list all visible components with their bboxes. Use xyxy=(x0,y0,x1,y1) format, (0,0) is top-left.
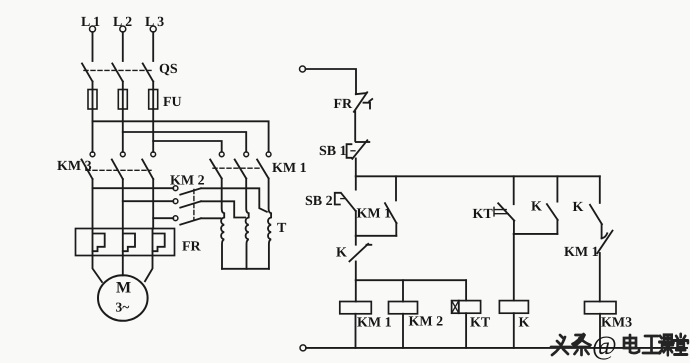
contact KM1 (NC interlock, right branch) xyxy=(597,231,612,302)
svg-text:3~: 3~ xyxy=(116,300,130,315)
pushbutton SB2 (NO start) xyxy=(335,176,356,211)
contactor KM1 main contact 1 xyxy=(210,152,224,179)
svg-text:L 1: L 1 xyxy=(81,15,100,30)
wire tap2 KM2 to winding 2 xyxy=(201,201,245,217)
char 电 xyxy=(624,335,639,353)
autotransformer T winding 2 xyxy=(246,179,249,269)
svg-text:L 2: L 2 xyxy=(113,15,132,30)
wire L1 to QS xyxy=(92,32,94,61)
svg-text:KM 1: KM 1 xyxy=(357,316,392,331)
wire drop to KM2 coil xyxy=(402,280,404,301)
star point bus xyxy=(222,268,269,270)
svg-text:SB 1: SB 1 xyxy=(319,144,347,159)
control bottom bus xyxy=(306,347,687,349)
control upper rail xyxy=(356,175,600,177)
svg-text:FR: FR xyxy=(334,97,354,112)
coil KM2 xyxy=(389,302,418,348)
wire FR to motor right xyxy=(145,251,153,281)
KM3 mechanical link (dashed) xyxy=(86,169,151,171)
contact K (right branch NO) xyxy=(590,176,602,238)
svg-text:T: T xyxy=(277,221,287,236)
contactor KM3 main contact 3 xyxy=(142,152,155,179)
wire SB1 to junction xyxy=(355,159,357,177)
watermark 头条@电工课堂 xyxy=(551,331,688,361)
autotransformer T winding 3 xyxy=(268,179,271,269)
KM2 mechanical link (dashed) xyxy=(193,190,195,220)
thermal relay FR box xyxy=(76,229,175,256)
wire FR to SB1 xyxy=(354,112,356,142)
terminal L1 xyxy=(81,15,100,32)
svg-text:SB 2: SB 2 xyxy=(305,194,333,209)
FR heater element 2 xyxy=(123,229,135,252)
svg-text:KT: KT xyxy=(473,207,494,222)
switch QS pole 2 xyxy=(112,64,123,82)
terminal L3 xyxy=(145,15,164,32)
wire jumper phase2 to KM1 pole2 xyxy=(123,132,246,152)
wire jumper phase3 to KM1 pole1 xyxy=(153,141,222,152)
FR heater element 1 xyxy=(93,229,105,252)
wire SB2 down xyxy=(355,211,357,236)
wire phase1 FU to KM3 xyxy=(92,109,94,152)
coil KM3 xyxy=(585,302,617,348)
wire drop to KT coil xyxy=(465,280,467,300)
contactor KM3 main contact 1 xyxy=(82,152,95,179)
svg-text:M: M xyxy=(116,280,131,297)
fuse FU 1 xyxy=(88,90,97,110)
svg-text:L 3: L 3 xyxy=(145,15,164,30)
autotransformer T winding 1 xyxy=(221,179,224,269)
char 头 xyxy=(551,335,571,355)
svg-text:KT: KT xyxy=(470,316,491,331)
coil K xyxy=(499,301,528,348)
coil KT (time relay, with delay box) xyxy=(452,301,481,348)
FR heater element 3 xyxy=(153,229,165,252)
fuse FU 3 xyxy=(149,90,158,110)
motor M 3~ xyxy=(98,275,148,321)
svg-text:K: K xyxy=(336,246,347,261)
contactor KM2 contact 1 xyxy=(93,186,201,195)
contactor KM3 main contact 2 xyxy=(112,152,125,179)
pushbutton SB1 (NC stop) xyxy=(347,140,370,159)
wire jumper phase1 to KM1 pole3 xyxy=(93,121,269,152)
contactor KM2 contact 2 xyxy=(123,199,201,208)
svg-text:KM 3: KM 3 xyxy=(57,159,92,174)
svg-text:KM 2: KM 2 xyxy=(409,315,444,330)
wire phase1 KM3 to FR xyxy=(92,179,94,229)
svg-text:@: @ xyxy=(592,331,617,361)
KM1 mechanical link (dashed) xyxy=(213,167,262,169)
svg-text:QS: QS xyxy=(159,62,178,77)
svg-text:K: K xyxy=(519,316,530,331)
char 课 xyxy=(659,335,673,355)
control lower rail to KT coil xyxy=(356,279,466,281)
wire QS to FU pole1 xyxy=(92,82,94,90)
wire L3 to QS xyxy=(152,32,154,61)
switch QS pole 3 xyxy=(143,64,154,82)
switch QS pole 1 xyxy=(82,64,93,82)
wire KT/K junction rail xyxy=(514,233,558,235)
contact KT (delayed, NO) xyxy=(494,176,514,234)
wire tap3 KM2 to winding 1 xyxy=(201,217,221,219)
wire L2 to QS xyxy=(122,32,124,61)
char 工 xyxy=(643,336,660,353)
wire phase3 FU to KM3 xyxy=(152,109,154,152)
control bottom terminal xyxy=(300,345,306,351)
wire top rail to FR contact xyxy=(306,69,357,93)
char 条 xyxy=(573,334,591,355)
coil KM1 xyxy=(340,302,372,348)
wire drop to KM1 coil xyxy=(355,280,357,301)
wire phase2 FU to KM3 xyxy=(122,109,124,152)
char 堂 xyxy=(674,334,688,355)
wire phase3 KM3 to FR xyxy=(152,179,154,229)
contact K (middle branch NO) xyxy=(547,176,558,234)
QS mechanical link (dashed) xyxy=(84,69,151,71)
svg-text:KM 1: KM 1 xyxy=(357,207,392,222)
svg-text:K: K xyxy=(573,200,584,215)
svg-text:K: K xyxy=(531,200,542,215)
svg-text:KM 1: KM 1 xyxy=(564,245,599,260)
wire phase2 KM3 to FR xyxy=(122,179,124,229)
contactor KM1 main contact 2 xyxy=(235,152,249,179)
contactor KM2 contact 3 xyxy=(153,216,201,225)
svg-text:FU: FU xyxy=(163,95,182,110)
contact K (left branch NO) xyxy=(350,236,372,280)
contactor KM1 main contact 3 xyxy=(257,152,271,179)
control top terminal xyxy=(300,66,306,72)
FR NC contact (control) xyxy=(354,92,372,112)
svg-text:FR: FR xyxy=(182,240,202,255)
svg-text:KM 2: KM 2 xyxy=(170,174,205,189)
wire tap1 KM2 to winding 3 xyxy=(201,188,267,212)
wire FR to motor middle xyxy=(122,251,124,275)
terminal L2 xyxy=(113,15,132,32)
wire FR to motor left xyxy=(93,251,103,282)
wire QS to FU pole3 xyxy=(152,82,154,90)
fuse FU 2 xyxy=(118,90,127,110)
wire QS to FU pole2 xyxy=(122,82,124,90)
wire junction to K coil xyxy=(513,234,515,301)
wire SB2/KM1 bottom link xyxy=(356,235,397,237)
svg-text:KM3: KM3 xyxy=(601,316,632,331)
contact KM1 auxiliary (NO, parallel with SB2) xyxy=(385,176,397,236)
svg-text:KM 1: KM 1 xyxy=(272,161,307,176)
